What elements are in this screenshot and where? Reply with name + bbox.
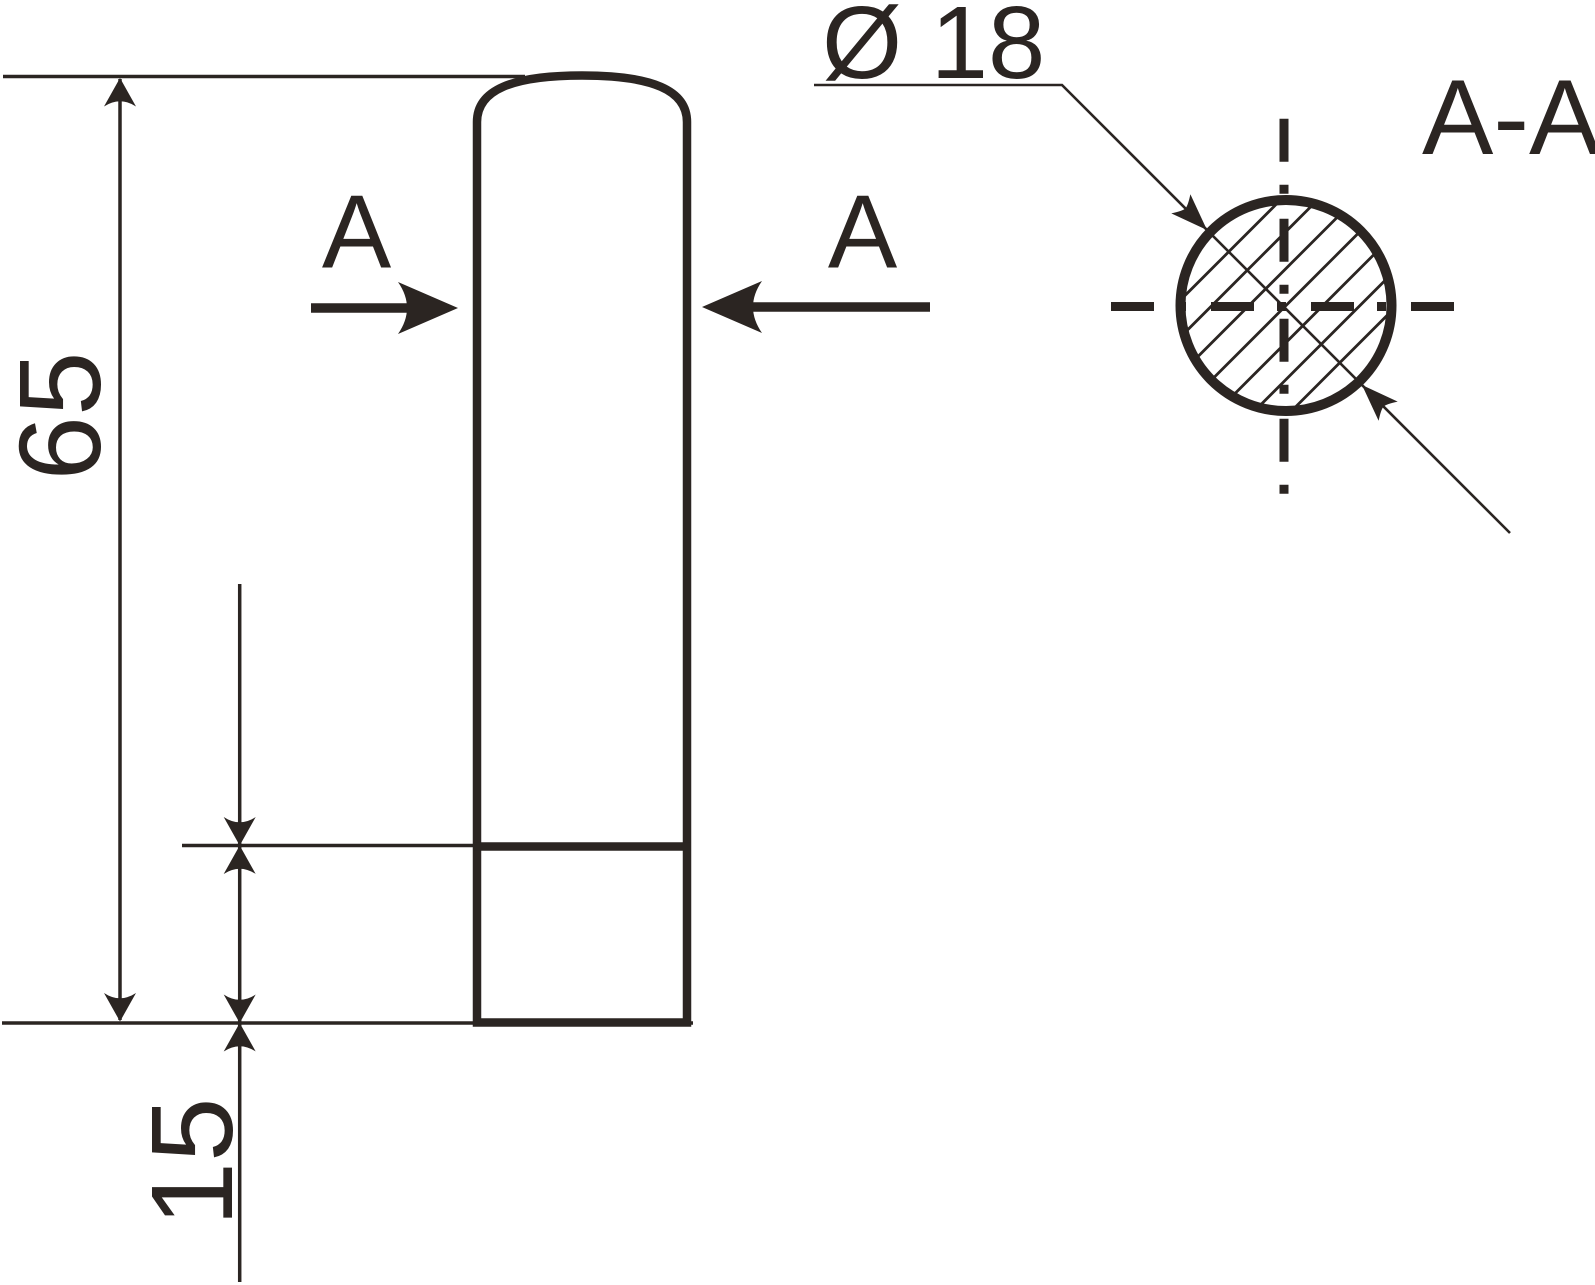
section arrow left head	[398, 282, 458, 334]
dim 15 arrowhead up from below y=845.5	[224, 846, 256, 875]
svg-text:A-A: A-A	[1422, 57, 1595, 177]
dimension line 15	[238, 584, 242, 1282]
section arrow left shaft	[311, 303, 412, 313]
svg-text:Ø 18: Ø 18	[822, 0, 1045, 100]
section arrow right head	[702, 281, 762, 333]
cylinder inner edge line	[473, 842, 691, 851]
dim 15 arrowhead down onto y=845.5	[224, 817, 256, 846]
dim 65 top arrowhead (up)	[104, 78, 136, 107]
leader line for diameter	[814, 85, 1510, 533]
dim 15 arrowhead down onto y=1023	[224, 995, 256, 1024]
dimension line 65	[118, 79, 122, 1020]
leader arrowhead upper (points down-right into circle)	[1171, 194, 1216, 239]
section arrow right shaft	[748, 302, 930, 312]
svg-text:A: A	[322, 175, 392, 291]
top extension line	[3, 75, 525, 79]
svg-text:A: A	[828, 175, 898, 291]
horizontal centerline	[1111, 302, 1454, 311]
middle extension line (top of 15 dim)	[182, 844, 473, 848]
hatching	[983, 151, 1589, 461]
cylinder outline	[477, 76, 687, 1023]
svg-text:15: 15	[127, 1097, 257, 1226]
dim 15 arrowhead up from below y=1023	[224, 1023, 256, 1052]
dim 65 bottom arrowhead (down)	[104, 993, 136, 1022]
section circle	[1181, 200, 1392, 411]
leader arrowhead lower (points up-left into circle)	[1352, 375, 1397, 420]
bottom extension line	[2, 1021, 693, 1025]
svg-text:65: 65	[0, 351, 125, 480]
vertical centerline	[1280, 119, 1289, 495]
